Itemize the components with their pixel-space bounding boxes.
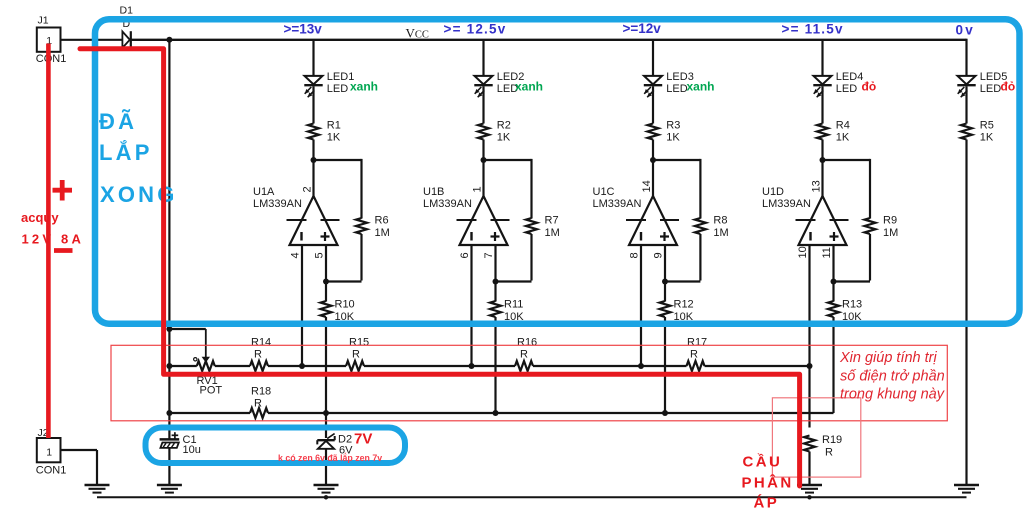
resistor R6 1M [356,215,390,240]
annotation red wire battery plus to divider [80,49,800,486]
svg-text:R3: R3 [666,120,680,132]
node feedback at pin 5 [323,279,329,285]
svg-text:1K: 1K [836,132,850,144]
node divider row at x169 [166,363,172,369]
svg-text:R2: R2 [497,120,511,132]
svg-text:1K: 1K [980,132,994,144]
op-amp U1B LM339AN [423,186,510,245]
svg-text:8: 8 [629,252,641,258]
svg-text:1: 1 [46,447,52,459]
svg-text:LED: LED [980,83,1001,95]
svg-text:R10: R10 [335,299,355,311]
svg-text:6: 6 [459,252,471,258]
resistor R9 1M [865,215,899,240]
annotation red wire J1 to J2 [46,44,51,439]
svg-text:1M: 1M [375,227,390,239]
svg-text:>= 11.5v: >= 11.5v [782,22,844,37]
svg-text:R19: R19 [822,434,842,446]
ground (C1) [157,485,182,493]
svg-text:>=13v: >=13v [284,22,323,37]
wire rail to LED4 anode [821,40,823,76]
svg-text:R: R [254,349,262,361]
resistor R10 10K [321,299,355,324]
resistor R3 1K [648,120,681,144]
svg-text:R15: R15 [349,337,369,349]
resistor R1 1K [308,120,341,144]
wire R9 upper lead [869,159,871,219]
wire output node to op-amp U1B [482,160,484,197]
wire C1 to ground [168,448,170,485]
resistor R13 10K [828,299,862,324]
svg-text:R16: R16 [517,337,537,349]
svg-text:R12: R12 [674,299,694,311]
svg-text:LED: LED [327,83,348,95]
svg-text:LM339AN: LM339AN [253,198,302,210]
wire R2 to output node [482,140,484,161]
svg-text:đỏ: đỏ [1001,79,1016,93]
wire VCC rail [131,39,967,41]
svg-text:U1D: U1D [762,186,784,198]
wire pin 8 to divider row [640,245,642,366]
node feedback at pin 7 [493,279,499,285]
resistor R5 1K [961,120,994,144]
wire pin 5 to R10 [325,282,327,302]
wire feedback top from output node to R8 [653,159,700,161]
wire divider row segment 1 [169,365,196,367]
svg-text:xanh: xanh [350,79,378,93]
annotation plus symbol [53,188,73,193]
svg-text:U1A: U1A [253,186,275,198]
svg-text:LED: LED [836,83,857,95]
node divider row end at pin 10 [807,363,813,369]
resistor R4 1K [817,120,850,144]
wire feedback bottom to pin 7 [496,280,532,282]
resistor R14 R [250,337,271,372]
svg-text:acquy: acquy [21,210,59,225]
wire LED5 to R5 [965,86,967,123]
wire VCC node down left column [168,40,170,439]
svg-text:xanh: xanh [515,79,543,93]
wire pin 4 to divider row [301,245,303,366]
svg-text:2: 2 [302,186,314,192]
wire R6 upper lead [360,159,362,219]
svg-text:R14: R14 [251,337,271,349]
op-amp U1C LM339AN [593,186,680,245]
resistor R18 R [250,386,271,419]
wire R4 to output node [821,140,823,161]
svg-text:POT: POT [200,385,223,397]
wire pin 7 to R11 [494,282,496,302]
wire pin 10 to divider row [808,245,810,366]
wire rail corner to LED5 [965,39,967,76]
svg-text:xanh: xanh [687,79,715,93]
svg-text:LED: LED [666,83,687,95]
LED LED3 [644,71,694,97]
connector J2 [36,427,67,477]
wire divider row segment 4 [364,365,515,367]
wire R1 to output node [312,140,314,161]
wire R3 to output node [652,140,654,161]
svg-text:12V 8A: 12V 8A [22,232,85,247]
svg-text:1M: 1M [713,227,728,239]
svg-text:10: 10 [797,246,809,258]
annotation box (thin red, R19) [772,398,860,477]
wire feedback bottom to pin 11 [834,280,871,282]
wire R12 to lower row [664,317,666,413]
wire lower row segment 2 [268,412,834,414]
wire feedback bottom to pin 5 [326,280,362,282]
svg-text:số điện trở phần: số điện trở phần [840,369,945,385]
wire divider row segment 5 [533,365,687,367]
svg-text:14: 14 [641,180,653,192]
svg-text:R17: R17 [687,337,707,349]
wire J1 pin to D1 anode [61,39,123,41]
svg-text:R5: R5 [980,120,994,132]
wire LED2 cathode to R2 [482,86,484,123]
svg-text:1K: 1K [666,132,680,144]
annotation minus symbol [54,248,73,253]
wire R11 to lower row [494,317,496,413]
potentiometer RV1 wiper arrow [202,357,210,363]
svg-text:7V: 7V [354,431,372,448]
wire pin 9 to feedback node [664,245,666,281]
wire R5 to ground [965,140,967,486]
svg-text:R7: R7 [545,215,559,227]
wire pin 9 to R12 [664,282,666,302]
wire rail to LED3 anode [652,40,654,76]
wire divider row segment 2 [215,365,250,367]
svg-text:R9: R9 [883,215,897,227]
ground (0v column) [954,485,979,493]
svg-text:LED4: LED4 [836,71,864,83]
node lower row at R11 [493,410,499,416]
svg-text:1: 1 [472,186,484,192]
svg-text:11: 11 [821,247,833,258]
node feedback at pin 11 [831,279,837,285]
node lower row at x169 [166,410,172,416]
wire output node to op-amp U1D [821,160,823,197]
resistor R19 R [804,434,842,459]
LED LED1 [304,71,354,97]
wire output node to op-amp U1C [652,160,654,197]
wire rail to LED1 anode [312,40,314,76]
wire R10 to lower row [325,317,327,413]
svg-text:CẦU: CẦU [743,454,783,471]
svg-text:PHÂN: PHÂN [742,474,794,492]
wire lower row to D2 cathode [325,413,327,438]
svg-text:R18: R18 [251,386,271,398]
resistor R11 10K [490,299,524,324]
wire feedback top from output node to R9 [823,159,871,161]
svg-text:>= 12.5v: >= 12.5v [444,22,507,37]
svg-text:1M: 1M [883,227,898,239]
svg-text:1K: 1K [497,132,511,144]
svg-text:đỏ: đỏ [862,79,877,93]
svg-text:R11: R11 [504,299,523,311]
potentiometer RV1 POT [197,361,223,397]
svg-text:R: R [352,349,360,361]
svg-text:LM339AN: LM339AN [593,198,642,210]
annotation marker box (blue, C1/D2) [146,428,406,464]
wire output node to op-amp U1A [312,160,314,197]
wire divider end to R19 [808,366,810,428]
svg-text:R1: R1 [327,120,341,132]
svg-text:CON1: CON1 [36,53,67,65]
wire R7 lower lead [530,234,532,281]
wire J2 pin to ground [61,449,98,451]
svg-text:LM339AN: LM339AN [423,198,472,210]
wire R9 lower lead [869,234,871,281]
node divider row at pin 6 [469,363,475,369]
svg-text:R: R [254,398,262,410]
svg-text:D1: D1 [120,5,134,17]
wire pin 11 to R13 [832,282,834,302]
svg-text:R4: R4 [836,120,850,132]
wire divider row segment 3 [268,365,346,367]
node feedback at pin 9 [662,279,668,285]
wire feedback top from output node to R7 [484,159,532,161]
op-amp U1D LM339AN [762,186,849,245]
ground (J2) [85,485,110,493]
svg-text:trong khung này: trong khung này [840,387,945,403]
capacitor C1 10u [160,432,201,456]
zener diode D2 6V [317,434,353,457]
svg-text:CON1: CON1 [36,465,67,477]
resistor R17 R [687,337,708,372]
wire bottom ground rail [97,496,967,498]
svg-text:7: 7 [483,252,495,258]
diode D1 [120,5,134,49]
svg-text:1K: 1K [327,132,341,144]
node divider row at pin 4 [299,363,305,369]
LED LED4 [813,71,863,97]
node bottom rail at R19 [807,495,811,499]
svg-text:R: R [520,349,528,361]
node divider row at pin 8 [638,363,644,369]
svg-text:9: 9 [653,252,665,258]
potentiometer RV1 marker circle [194,358,197,361]
svg-text:>=12v: >=12v [623,21,662,36]
wire feedback bottom to pin 9 [665,280,700,282]
svg-text:k có zen 6v đã lắp zen 7v: k có zen 6v đã lắp zen 7v [278,452,382,463]
wire pin 7 to feedback node [494,245,496,281]
resistor R8 1M [695,215,729,240]
svg-text:Xin giúp tính trị: Xin giúp tính trị [839,350,937,366]
svg-text:13: 13 [811,180,823,192]
wire lower row segment 1 [169,412,250,414]
wire R6 lower lead [360,234,362,281]
svg-text:U1B: U1B [423,186,444,198]
wire R7 upper lead [530,159,532,219]
node lower row at R12 [662,410,668,416]
node lower row at R10 [323,410,329,416]
svg-text:LẮP: LẮP [99,140,153,165]
wire R8 upper lead [699,159,701,219]
wire R19 to ground [808,452,810,486]
svg-text:4: 4 [290,252,302,258]
resistor R15 R [346,337,369,372]
svg-text:1M: 1M [545,227,560,239]
node bottom rail at D2 [324,495,328,499]
svg-text:R13: R13 [842,299,862,311]
node output U1D [820,157,826,163]
ground (R19) [797,485,822,493]
LED LED2 [474,71,524,97]
wire R8 lower lead [699,234,701,281]
wire feedback top from output node to R6 [314,159,362,161]
node VCC junction at x169 [166,37,172,43]
svg-text:10u: 10u [183,444,201,456]
node output U1B [481,157,487,163]
resistor R12 10K [660,299,694,324]
node output U1C [650,157,656,163]
ground (D2) [314,485,339,493]
svg-text:U1C: U1C [593,186,615,198]
svg-text:0v: 0v [956,23,975,38]
svg-text:ĐÃ: ĐÃ [99,109,137,134]
svg-text:R: R [825,447,833,459]
wire rail to LED2 anode [482,40,484,76]
svg-text:LM339AN: LM339AN [762,198,811,210]
connector J1 [36,15,67,66]
wire pin 6 to divider row [470,245,472,366]
wire LED4 cathode to R4 [821,86,823,123]
annotation box (thin red, divider rows) [111,345,947,421]
svg-text:J1: J1 [38,15,49,27]
wire pin 5 to feedback node [325,245,327,281]
annotation marker box (blue, main circuit) [95,19,1020,324]
resistor R16 R [515,337,537,372]
node output U1A [311,157,317,163]
resistor R7 1M [526,215,560,240]
svg-text:R: R [690,349,698,361]
wire LED3 cathode to R3 [652,86,654,123]
op-amp U1A LM339AN [253,186,340,245]
wire pin 11 to feedback node [832,245,834,281]
svg-text:R6: R6 [375,215,389,227]
wire D2 anode to ground [325,449,327,485]
wire branch to RV1 wiper [169,328,205,330]
LED LED5 [957,71,1007,97]
resistor R2 1K [478,120,511,144]
svg-text:R8: R8 [713,215,727,227]
svg-text:5: 5 [314,252,326,258]
wire divider row segment 6 [705,365,810,367]
wire R13 to lower row [832,317,834,413]
svg-text:ÁP: ÁP [754,495,780,512]
node RV1 branch [166,326,172,332]
wire LED1 cathode to R1 [312,86,314,123]
